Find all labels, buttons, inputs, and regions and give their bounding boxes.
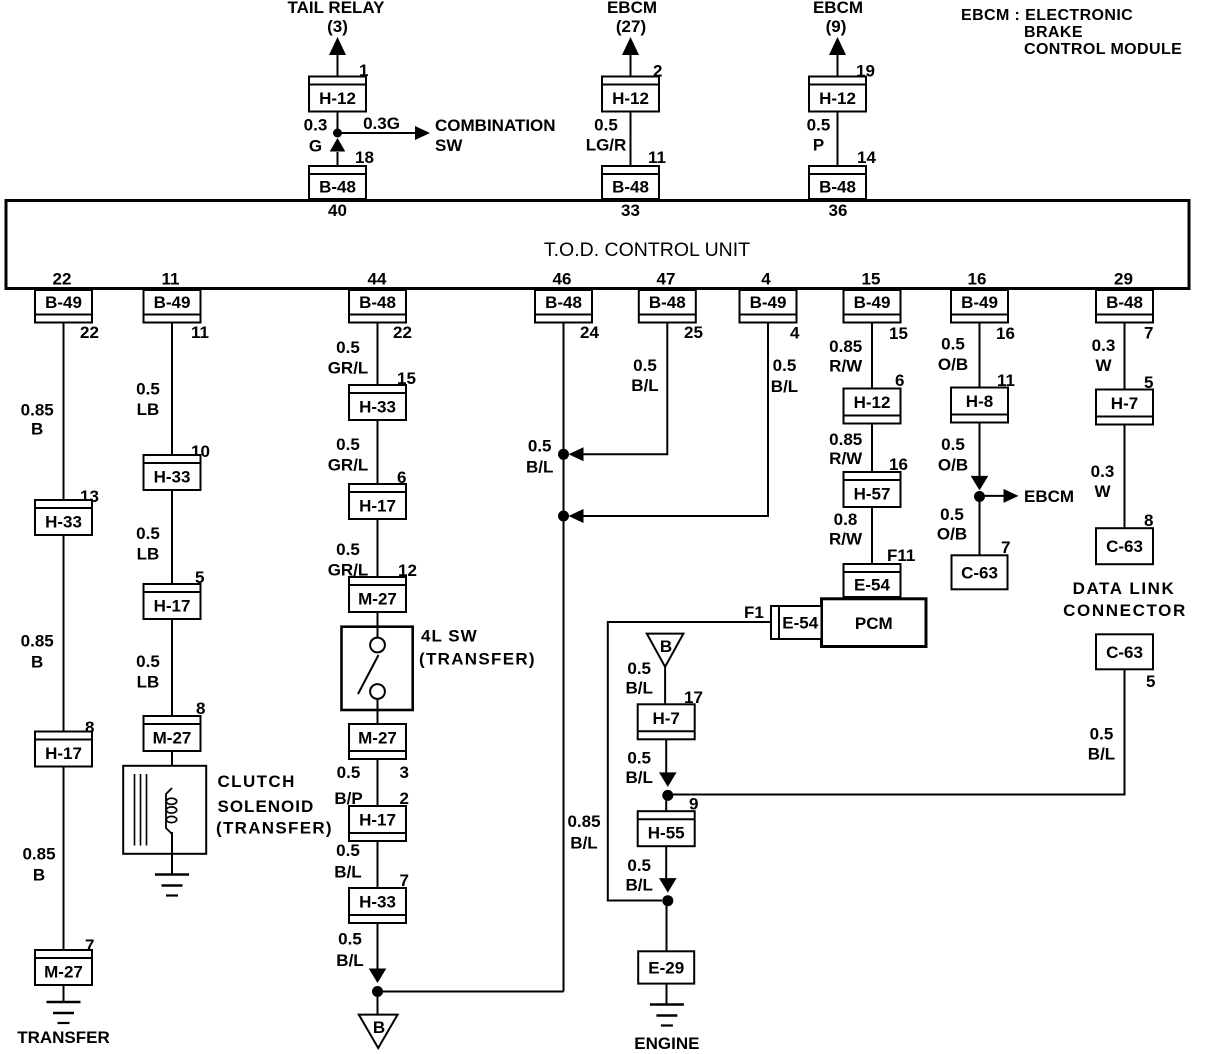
connector H-17 (pin 2) <box>349 806 406 841</box>
wire 0.5 O/B <box>979 423 981 477</box>
svg-text:E-29: E-29 <box>648 958 684 977</box>
svg-text:B-48: B-48 <box>819 178 856 197</box>
svg-text:0.5: 0.5 <box>773 356 797 375</box>
svg-text:B-48: B-48 <box>359 293 396 312</box>
svg-text:0.5: 0.5 <box>336 435 360 454</box>
svg-text:11: 11 <box>191 323 209 342</box>
svg-text:0.5: 0.5 <box>627 749 651 768</box>
svg-text:6: 6 <box>895 371 904 390</box>
wire solenoid to ground <box>171 832 173 875</box>
svg-text:0.3G: 0.3G <box>363 114 400 133</box>
wire from E-54 F1 to junction (0.85 B/L) <box>608 622 771 901</box>
arrow junction from data link connector <box>659 772 677 787</box>
wire to ground <box>63 985 65 1002</box>
wire 0.5 B/L to junction <box>672 669 1125 794</box>
wire 0.5 O/B <box>979 323 981 388</box>
node junction dot (pin 4 merge) <box>558 511 569 522</box>
svg-text:36: 36 <box>829 201 848 220</box>
label 0.5 B/P <box>334 763 362 808</box>
wire 0.5 B/L <box>581 323 667 455</box>
connector B-49 (col 4) <box>740 290 797 323</box>
wire 0.5 GR/L <box>377 519 379 577</box>
svg-text:0.3: 0.3 <box>304 116 328 135</box>
svg-text:0.85: 0.85 <box>21 631 54 650</box>
label 0.3 W <box>1092 336 1116 375</box>
wire 0.85 R/W <box>871 424 873 473</box>
svg-text:0.85: 0.85 <box>829 430 862 449</box>
wire junction to col 46 <box>378 991 564 993</box>
svg-text:(3): (3) <box>327 17 348 36</box>
wire to EBCM arrow <box>984 495 1004 497</box>
wire 0.3G to combination switch <box>341 132 416 134</box>
svg-text:0.5: 0.5 <box>338 930 362 949</box>
svg-text:0.5: 0.5 <box>633 356 657 375</box>
arrow junction from pin 25 <box>569 447 584 461</box>
svg-text:M-27: M-27 <box>358 590 397 609</box>
arrow junction from pin 4 <box>569 509 584 523</box>
wire 0.85 R/W <box>871 323 873 389</box>
node CLUTCH SOLENOID (TRANSFER) label <box>216 772 333 838</box>
wire <box>337 55 339 77</box>
label 0.5 LG/R <box>586 116 627 155</box>
svg-text:22: 22 <box>80 323 99 342</box>
connector B-49 (col 1) <box>35 290 92 323</box>
svg-text:B: B <box>660 637 672 656</box>
svg-text:B-49: B-49 <box>154 293 191 312</box>
label 0.5 P <box>807 116 831 155</box>
svg-text:40: 40 <box>328 201 347 220</box>
svg-text:B-48: B-48 <box>649 293 686 312</box>
arrow to EBCM (9) <box>829 37 846 55</box>
PCM module <box>822 599 927 647</box>
label 0.5 LB <box>136 380 160 420</box>
wire 0.5 B/L <box>665 739 667 773</box>
svg-text:M-27: M-27 <box>44 963 83 982</box>
label 0.85 R/W <box>829 430 863 468</box>
svg-text:M-27: M-27 <box>358 729 397 748</box>
svg-text:H-12: H-12 <box>854 393 891 412</box>
wire 0.8 R/W <box>871 507 873 564</box>
node junction dot (data link merge) <box>662 790 673 801</box>
connector C-63 (pin 7) <box>952 555 1008 589</box>
svg-text:46: 46 <box>553 270 572 289</box>
svg-text:B/L: B/L <box>336 951 363 970</box>
svg-text:(9): (9) <box>826 17 847 36</box>
ground (engine) <box>650 1005 684 1026</box>
svg-text:15: 15 <box>889 324 908 343</box>
wire 0.5 B/L <box>665 846 667 878</box>
connector H-17 (pin 8) <box>35 732 92 767</box>
svg-text:PCM: PCM <box>855 614 893 633</box>
connector B-48 (col 47) <box>639 290 696 323</box>
connector H-7 (pin 5) <box>1096 390 1153 425</box>
svg-text:B-49: B-49 <box>750 293 787 312</box>
node EBCM (9) label <box>813 0 863 36</box>
wire <box>337 152 339 166</box>
label 0.3 W <box>1091 462 1115 501</box>
connector H-33 (pin 13) <box>35 500 92 535</box>
svg-text:E-54: E-54 <box>854 576 890 595</box>
connector H-17 (pin 6) <box>349 484 406 519</box>
label 0.5 B/L <box>1088 725 1115 764</box>
svg-text:14: 14 <box>857 148 876 167</box>
svg-text:25: 25 <box>684 323 703 342</box>
svg-text:B-48: B-48 <box>319 178 356 197</box>
connector H-33 (pin 15) <box>349 385 406 420</box>
label 0.5 B/L <box>334 841 361 882</box>
connector H-55 (pin 9) <box>638 811 695 846</box>
svg-text:F11: F11 <box>887 546 915 565</box>
connector H-12 (pin 6) <box>844 389 901 424</box>
label 0.85 B <box>22 844 55 884</box>
svg-text:G: G <box>309 137 322 156</box>
arrow to EBCM <box>1004 489 1019 503</box>
connector B-49 (col 16) <box>951 290 1008 323</box>
svg-text:4: 4 <box>761 270 771 289</box>
svg-text:0.5: 0.5 <box>336 338 360 357</box>
connector E-54 (pin F11) <box>844 564 901 597</box>
svg-text:B: B <box>31 420 43 439</box>
svg-text:C-63: C-63 <box>1106 643 1143 662</box>
svg-text:B-48: B-48 <box>1106 293 1143 312</box>
node junction dot EBCM branch <box>974 491 985 502</box>
svg-text:CONNECTOR: CONNECTOR <box>1063 601 1187 620</box>
connector H-7 (pin 17) <box>638 704 695 739</box>
svg-text:B/L: B/L <box>1088 745 1115 764</box>
label 0.5 B/L <box>526 437 553 477</box>
svg-text:B/L: B/L <box>631 376 658 395</box>
svg-text:H-8: H-8 <box>966 392 993 411</box>
svg-text:29: 29 <box>1114 270 1133 289</box>
svg-text:0.5: 0.5 <box>594 116 618 135</box>
svg-text:H-12: H-12 <box>612 89 649 108</box>
svg-text:0.5: 0.5 <box>136 652 160 671</box>
wire 0.5 GR/L <box>377 420 379 484</box>
svg-text:TRANSFER: TRANSFER <box>17 1028 110 1047</box>
label 0.5 LB <box>136 524 160 564</box>
svg-text:EBCM : ELECTRONIC: EBCM : ELECTRONIC <box>961 7 1133 24</box>
svg-text:0.85: 0.85 <box>567 812 600 831</box>
node COMBINATION SW label <box>435 116 556 155</box>
svg-text:0.5: 0.5 <box>337 763 361 782</box>
svg-text:LB: LB <box>137 545 160 564</box>
svg-text:LB: LB <box>137 673 160 692</box>
connector B-48 (pin 14) <box>809 166 866 199</box>
svg-text:C-63: C-63 <box>1106 537 1143 556</box>
svg-text:H-17: H-17 <box>154 597 191 616</box>
svg-text:44: 44 <box>368 270 387 289</box>
label 0.5 O/B <box>938 335 968 375</box>
label 0.85 B <box>21 631 54 671</box>
svg-text:0.5: 0.5 <box>627 659 651 678</box>
svg-text:(TRANSFER): (TRANSFER) <box>419 650 536 669</box>
svg-text:3: 3 <box>400 763 409 782</box>
svg-text:B/L: B/L <box>626 679 653 698</box>
svg-text:BRAKE: BRAKE <box>1024 24 1083 41</box>
wire 0.85 B <box>63 767 65 951</box>
clutch solenoid (transfer) <box>123 766 206 854</box>
svg-text:B-49: B-49 <box>854 293 891 312</box>
svg-text:0.5: 0.5 <box>807 116 831 135</box>
connector node B (top) <box>647 634 684 667</box>
svg-text:0.8: 0.8 <box>834 510 858 529</box>
node EBCM (27) label <box>607 0 657 36</box>
wire junction to connector B <box>377 997 379 1015</box>
connector E-54 (pin F1) <box>771 606 822 639</box>
node junction dot col 3 <box>372 986 383 997</box>
svg-text:H-12: H-12 <box>819 89 856 108</box>
connector H-12 (pin 2) <box>602 77 659 112</box>
svg-text:0.5: 0.5 <box>528 437 552 456</box>
svg-text:8: 8 <box>1144 511 1153 530</box>
svg-text:H-7: H-7 <box>1111 394 1138 413</box>
wire 0.5 LG/R <box>630 112 632 167</box>
svg-text:E-54: E-54 <box>782 614 818 633</box>
svg-text:15: 15 <box>862 270 881 289</box>
label 0.5 B/L <box>626 749 653 788</box>
svg-text:B/L: B/L <box>526 458 553 477</box>
connector node B (bottom) <box>359 1015 398 1048</box>
svg-text:0.85: 0.85 <box>21 401 54 420</box>
svg-text:11: 11 <box>162 270 180 289</box>
connector B-49 (col 15) <box>844 290 901 323</box>
label 0.5 B/L <box>336 930 363 971</box>
connector M-27 (pin 8) <box>144 716 201 751</box>
label 0.85 R/W <box>829 337 863 376</box>
wire 0.3 W <box>1124 323 1126 390</box>
svg-text:W: W <box>1095 356 1112 375</box>
svg-text:H-55: H-55 <box>648 824 685 843</box>
svg-text:H-7: H-7 <box>652 709 679 728</box>
connector C-63 (pin 8) <box>1096 528 1153 564</box>
svg-text:EBCM: EBCM <box>607 0 657 17</box>
label 0.5 O/B <box>937 505 967 544</box>
svg-text:47: 47 <box>657 270 676 289</box>
wire 0.5 B/L <box>581 323 768 517</box>
svg-text:COMBINATION: COMBINATION <box>435 116 556 135</box>
svg-text:0.5: 0.5 <box>941 335 965 354</box>
connector B-48 (col 29) <box>1096 290 1153 323</box>
svg-text:R/W: R/W <box>829 449 863 468</box>
label 0.5 B/L <box>626 856 653 895</box>
svg-text:LG/R: LG/R <box>586 136 627 155</box>
svg-text:O/B: O/B <box>938 455 968 474</box>
svg-text:B: B <box>31 652 43 671</box>
svg-text:(TRANSFER): (TRANSFER) <box>216 819 333 838</box>
svg-text:H-17: H-17 <box>359 497 396 516</box>
svg-text:0.5: 0.5 <box>336 841 360 860</box>
node DATA LINK CONNECTOR label <box>1063 579 1187 620</box>
svg-text:24: 24 <box>580 323 599 342</box>
connector B-48 (col 46) <box>535 290 592 323</box>
connector M-27 (pin 12) <box>349 577 406 612</box>
svg-text:4L SW: 4L SW <box>421 627 478 646</box>
svg-text:GR/L: GR/L <box>328 456 369 475</box>
arrow junction into node B <box>369 969 387 984</box>
wire 0.85 B <box>63 323 65 501</box>
svg-text:18: 18 <box>355 148 374 167</box>
label 0.5 GR/L <box>328 338 369 378</box>
svg-text:B-48: B-48 <box>612 178 649 197</box>
svg-text:LB: LB <box>137 400 160 419</box>
svg-text:SW: SW <box>435 136 463 155</box>
connector H-33 (pin 10) <box>144 455 201 490</box>
arrow to EBCM (27) <box>622 37 639 55</box>
label 0.5 GR/L <box>328 435 369 475</box>
wire <box>630 55 632 77</box>
svg-text:(27): (27) <box>616 17 646 36</box>
wire <box>665 800 667 811</box>
svg-text:B-49: B-49 <box>45 293 82 312</box>
svg-text:H-33: H-33 <box>359 398 396 417</box>
svg-text:EBCM: EBCM <box>813 0 863 17</box>
svg-text:0.5: 0.5 <box>1090 725 1114 744</box>
svg-text:4: 4 <box>790 324 800 343</box>
label 0.5 B/L <box>631 356 658 395</box>
connector H-8 (pin 11) <box>951 388 1008 423</box>
wire 0.5 LB <box>171 490 173 584</box>
svg-text:0.5: 0.5 <box>136 524 160 543</box>
connector M-27 (below 4L SW) <box>349 724 406 759</box>
svg-text:7: 7 <box>1001 538 1010 557</box>
wire 0.3 W <box>1124 425 1126 529</box>
ground (transfer) <box>47 1002 81 1023</box>
svg-text:H-17: H-17 <box>45 744 82 763</box>
label 0.85 B <box>21 401 54 439</box>
svg-text:B-49: B-49 <box>961 293 998 312</box>
wire <box>377 612 379 627</box>
svg-text:O/B: O/B <box>937 525 967 544</box>
svg-text:P: P <box>813 136 824 155</box>
svg-text:EBCM: EBCM <box>1024 487 1074 506</box>
arrow junction from E-54 F1 branch <box>659 878 677 893</box>
wire to ground <box>666 984 668 1004</box>
wire to E-29 <box>666 906 668 951</box>
wire 0.85 B <box>63 535 65 732</box>
svg-text:B/L: B/L <box>626 876 653 895</box>
T.O.D. control unit U1 <box>6 201 1189 289</box>
label 0.5 B/L <box>626 659 653 698</box>
arrow junction from B-48 pin 18 <box>330 138 346 152</box>
arrow to COMBINATION SW <box>415 126 430 140</box>
svg-text:R/W: R/W <box>829 357 863 376</box>
svg-text:R/W: R/W <box>829 530 863 549</box>
label 0.5 B/L <box>771 356 798 396</box>
node TAIL RELAY label <box>288 0 386 36</box>
label 0.85 B/L <box>567 812 600 853</box>
svg-text:22: 22 <box>53 270 72 289</box>
svg-text:B-48: B-48 <box>545 293 582 312</box>
svg-text:CLUTCH: CLUTCH <box>218 772 296 791</box>
wire to clutch solenoid <box>171 751 173 788</box>
connector H-33 (pin 7) <box>349 888 406 923</box>
svg-text:0.3: 0.3 <box>1092 336 1116 355</box>
svg-text:SOLENOID: SOLENOID <box>218 797 315 816</box>
svg-text:O/B: O/B <box>938 355 968 374</box>
svg-text:22: 22 <box>393 323 412 342</box>
connector B-49 (col 2) <box>144 290 201 323</box>
svg-text:TAIL RELAY: TAIL RELAY <box>288 0 386 17</box>
connector M-27 (pin 7) <box>35 950 92 985</box>
wire <box>377 710 379 724</box>
node junction dot (pin 25 merge) <box>558 449 569 460</box>
svg-text:H-57: H-57 <box>854 485 891 504</box>
connector C-63 (pin 5) <box>1096 634 1153 669</box>
svg-text:33: 33 <box>621 201 640 220</box>
svg-text:B/L: B/L <box>570 834 597 853</box>
svg-text:H-33: H-33 <box>45 513 82 532</box>
svg-text:H-12: H-12 <box>319 89 356 108</box>
svg-text:0.5: 0.5 <box>336 540 360 559</box>
wire 0.5 B/L long <box>563 323 565 992</box>
wire 0.5 GR/L <box>377 323 379 386</box>
label 0.5 O/B <box>938 435 968 475</box>
svg-text:0.5: 0.5 <box>941 435 965 454</box>
connector B-48 (pin 18) <box>309 166 366 199</box>
svg-text:B/L: B/L <box>771 377 798 396</box>
svg-text:C-63: C-63 <box>961 563 998 582</box>
node 4L SW (TRANSFER) label <box>419 627 536 669</box>
arrow to TAIL RELAY (3) <box>329 37 346 55</box>
svg-text:DATA LINK: DATA LINK <box>1073 579 1176 598</box>
wire 0.5 P <box>837 112 839 167</box>
wire 0.5 B/L <box>664 667 666 705</box>
wire <box>837 55 839 77</box>
wire 0.5 LB <box>171 619 173 716</box>
svg-text:0.85: 0.85 <box>829 337 862 356</box>
wire 0.3 G <box>337 112 339 134</box>
connector H-12 (pin 19) <box>809 77 866 112</box>
connector E-29 <box>638 951 694 983</box>
svg-text:F1: F1 <box>744 603 764 622</box>
connector H-17 (pin 5) <box>144 584 201 619</box>
connector H-12 (pin 1) <box>309 77 366 112</box>
ground (clutch solenoid) <box>155 875 189 896</box>
svg-text:0.5: 0.5 <box>136 380 160 399</box>
svg-text:M-27: M-27 <box>153 729 192 748</box>
svg-text:16: 16 <box>968 270 987 289</box>
svg-text:0.5: 0.5 <box>627 856 651 875</box>
svg-text:GR/L: GR/L <box>328 359 369 378</box>
svg-text:B/L: B/L <box>334 863 361 882</box>
label 0.5 GR/L <box>328 540 369 580</box>
label 0.5 LB <box>136 652 160 692</box>
wire 0.5 B/L <box>377 923 379 969</box>
svg-text:B: B <box>33 865 45 884</box>
svg-text:W: W <box>1094 482 1111 501</box>
connector H-57 (pin 16) <box>844 472 901 507</box>
wire 0.5 B/L <box>377 841 379 888</box>
wire 0.5 LB <box>171 323 173 456</box>
svg-text:T.O.D. CONTROL UNIT: T.O.D. CONTROL UNIT <box>544 239 750 261</box>
svg-text:5: 5 <box>1146 672 1155 691</box>
connector B-48 (pin 11) <box>602 166 659 199</box>
svg-text:B: B <box>373 1018 385 1037</box>
svg-text:0.3: 0.3 <box>1091 462 1115 481</box>
connector B-48 (col 3) <box>349 290 406 323</box>
label 0.3 G <box>304 116 328 156</box>
node junction dot (E-54 branch merge) <box>662 895 673 906</box>
svg-text:0.85: 0.85 <box>22 844 55 863</box>
node junction to combination switch <box>333 129 342 138</box>
EBCM legend text <box>961 7 1182 58</box>
svg-text:B/L: B/L <box>626 768 653 787</box>
wire 0.5 B/P <box>377 759 379 806</box>
svg-text:7: 7 <box>1144 324 1153 343</box>
svg-text:H-17: H-17 <box>359 811 396 830</box>
svg-text:H-33: H-33 <box>359 893 396 912</box>
arrow junction to EBCM branch <box>971 476 989 491</box>
